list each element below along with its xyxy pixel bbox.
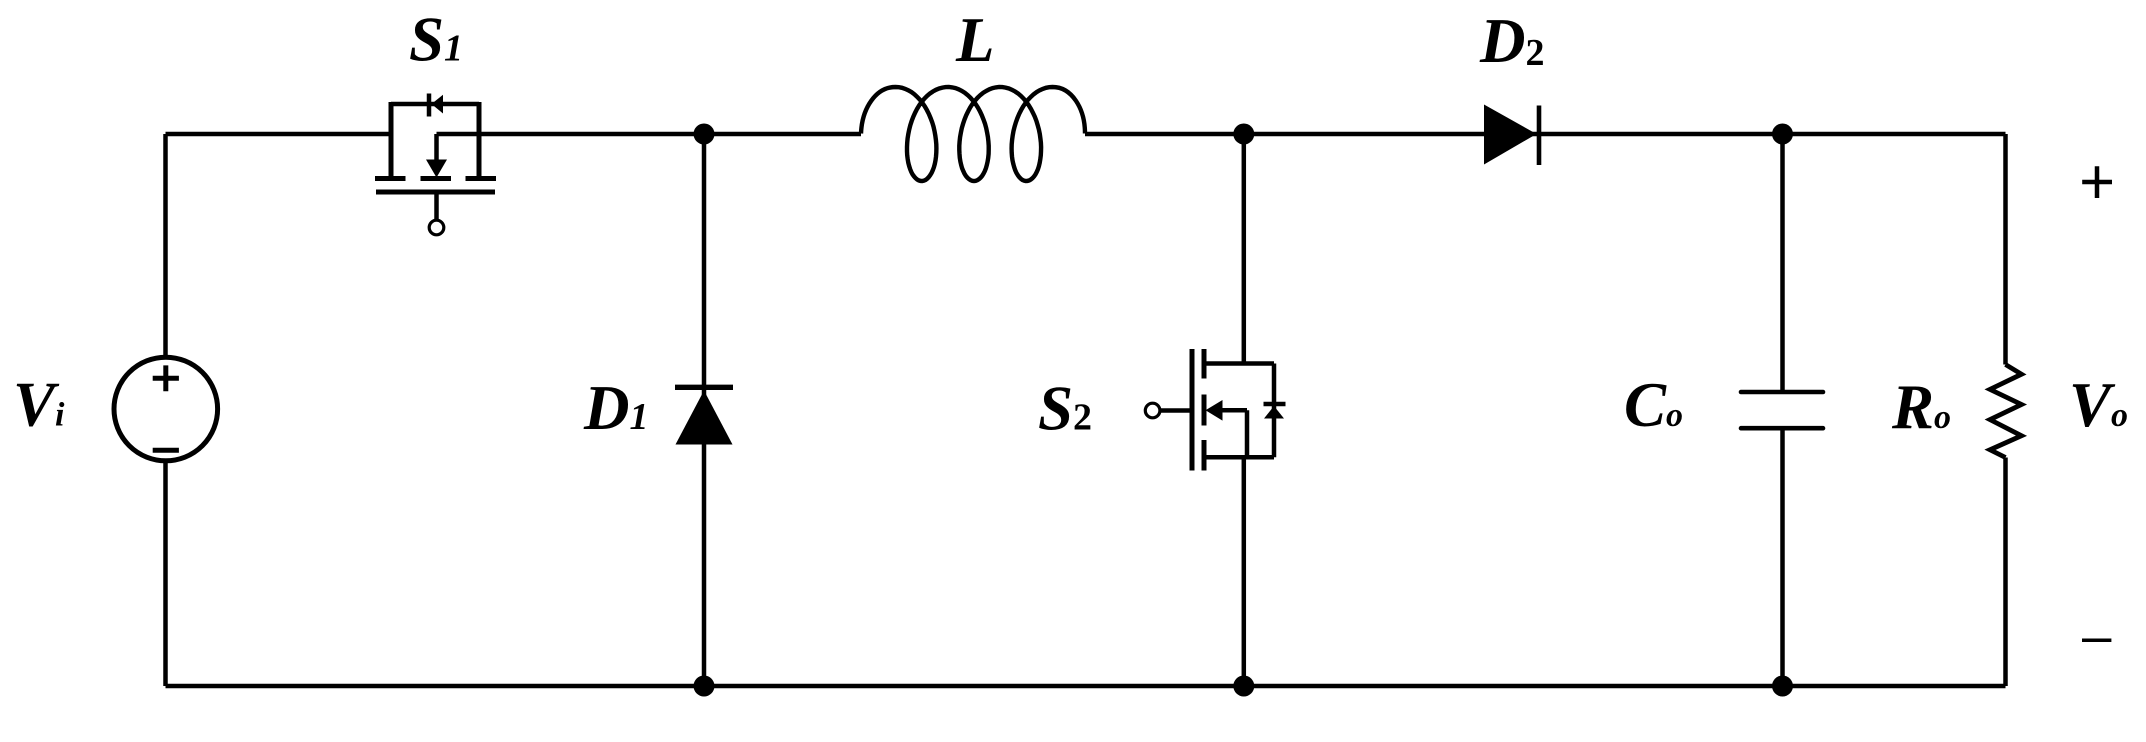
diode D1 xyxy=(675,387,733,444)
resistor Ro zigzag xyxy=(1990,365,2022,458)
node junction top Co xyxy=(1772,124,1793,145)
node junction bottom S2 xyxy=(1233,676,1254,697)
wire D1 branch vertical xyxy=(702,134,707,686)
wire Co branch upper xyxy=(1780,134,1785,392)
output minus sign xyxy=(2082,638,2111,642)
transistor S1 (MOSFET with body diode) xyxy=(375,94,496,235)
node junction top S2 xyxy=(1233,124,1254,145)
wire top-left from Vi to S1 drain xyxy=(166,132,392,137)
wire right rail upper (output + side) xyxy=(2003,134,2008,365)
inductor L coil xyxy=(861,87,1085,181)
wire S2 drain vertical xyxy=(1242,134,1247,364)
wire left rail lower (Vi - terminal) xyxy=(163,461,168,686)
wire top from inductor through D2 to output corner xyxy=(1085,132,2006,137)
wire left rail upper (Vi + terminal) xyxy=(163,134,168,358)
voltage source Vi circle xyxy=(114,357,218,461)
node junction bottom D1 xyxy=(694,676,715,697)
wire S2 source vertical xyxy=(1242,457,1247,686)
capacitor Co xyxy=(1741,392,1823,428)
output plus sign xyxy=(2082,166,2112,198)
wire bottom rail xyxy=(166,684,2006,689)
svg-text:L: L xyxy=(955,5,994,75)
wire Co branch lower xyxy=(1780,428,1785,686)
node junction bottom Co xyxy=(1772,676,1793,697)
node junction top D1 xyxy=(694,124,715,145)
wire top from S1 source to inductor L xyxy=(437,132,862,137)
wire right rail lower xyxy=(2003,458,2008,687)
transistor S2 (MOSFET with body diode) xyxy=(1145,349,1285,471)
diode D2 xyxy=(1484,105,1539,166)
